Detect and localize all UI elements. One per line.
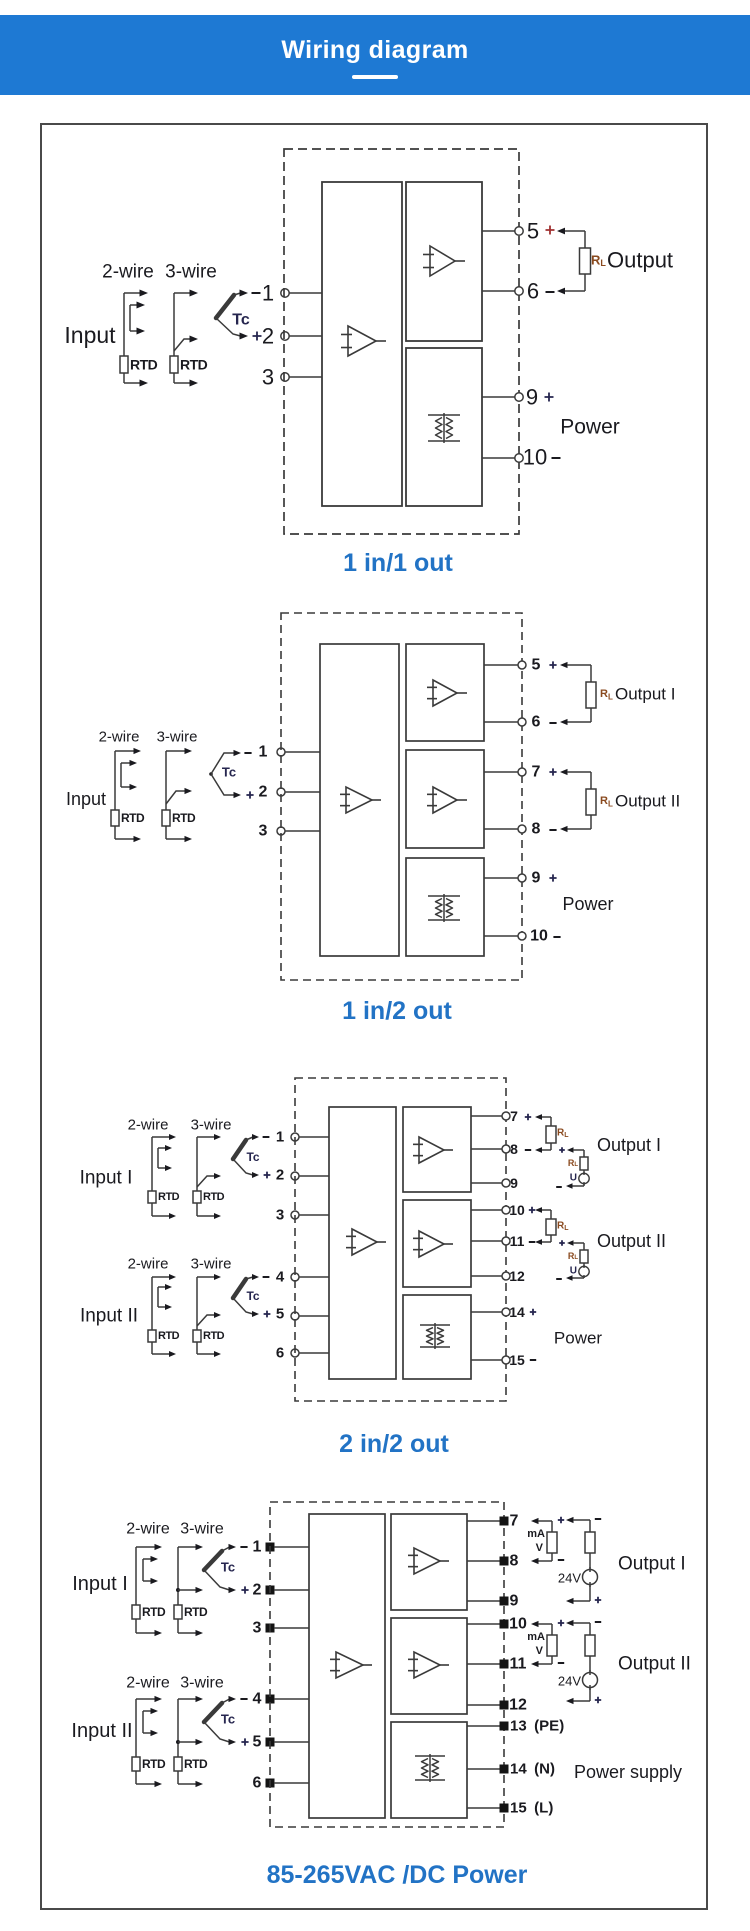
svg-text:Power: Power <box>554 1329 603 1348</box>
svg-text:3-wire: 3-wire <box>191 1117 232 1134</box>
wire terminal2-block (D3) <box>299 1175 329 1177</box>
polarity - source II (D4) <box>595 1621 601 1623</box>
svg-text:RL: RL <box>557 1221 569 1232</box>
svg-text:RL: RL <box>591 253 606 269</box>
svg-text:2: 2 <box>253 1582 262 1599</box>
terminal square 14 (D4) <box>500 1765 509 1774</box>
terminal circle 2 (D2) <box>277 788 285 796</box>
svg-text:Input I: Input I <box>72 1573 128 1595</box>
wire terminal2-block (D2) <box>285 791 320 793</box>
svg-text:Output II: Output II <box>618 1654 691 1675</box>
wire block-terminal9 (D4) <box>467 1600 500 1602</box>
svg-text:Input I: Input I <box>80 1168 133 1189</box>
RTD resistor 3-wire (D2) <box>162 810 170 826</box>
voltage load loop II (D3) <box>556 1240 589 1281</box>
polarity - meter II (D4) <box>558 1662 564 1664</box>
svg-text:9: 9 <box>510 1175 518 1191</box>
svg-text:Power supply: Power supply <box>574 1762 682 1782</box>
wire block-terminal9 (D2) <box>484 877 518 879</box>
svg-text:Tc: Tc <box>246 1289 259 1303</box>
polarity - at 8 (D2) <box>549 829 556 831</box>
svg-text:Output I: Output I <box>615 685 675 704</box>
terminal circle 5 (D3) <box>291 1312 299 1320</box>
3-wire sensor bracket (D2) <box>166 748 192 842</box>
svg-text:Output I: Output I <box>618 1554 686 1575</box>
polarity - at 15 (D3) <box>530 1359 536 1361</box>
svg-text:24V: 24V <box>558 1571 581 1586</box>
wire block-terminal15 (D4) <box>467 1807 500 1809</box>
wire terminal5-block (D3) <box>299 1315 329 1317</box>
op-amp output stage (D1) <box>423 246 465 276</box>
terminal square 1 (D4) <box>266 1543 275 1552</box>
wire block-terminal10 (D1) <box>482 457 515 459</box>
svg-text:RTD: RTD <box>172 811 196 825</box>
svg-text:2 in/2 out: 2 in/2 out <box>339 1430 449 1458</box>
wire block-terminal12 (D3) <box>471 1275 502 1277</box>
terminal circle 2 (D1) <box>281 332 289 340</box>
wire block-terminal8 (D3) <box>471 1148 502 1150</box>
wire block-terminal9 (D3) <box>471 1182 502 1184</box>
op-amp input stage (D1) <box>341 326 386 356</box>
svg-text:Input: Input <box>64 322 116 348</box>
svg-text:6: 6 <box>527 279 539 304</box>
svg-text:V: V <box>536 1542 544 1554</box>
wire terminal4-block (D3) <box>299 1276 329 1278</box>
2-wire sensor bracket (D3-II) <box>152 1274 176 1357</box>
svg-text:2: 2 <box>259 784 268 801</box>
RTD resistor 2-wire (D4-I) <box>132 1605 140 1619</box>
output amplifier I block (D4) <box>391 1514 467 1610</box>
load resistor RL loop II (D2) <box>560 769 596 832</box>
wire block-terminal9 (D1) <box>482 396 515 398</box>
mA/V meter loop II (D4) <box>531 1621 557 1667</box>
wire block-terminal8 (D2) <box>484 828 518 830</box>
load resistor RL loop I (D3) <box>535 1114 556 1153</box>
op-amp output II (D2) <box>427 787 467 813</box>
svg-text:Input: Input <box>66 789 106 809</box>
terminal circle 12 (D3) <box>502 1272 510 1280</box>
wire block-terminal7 (D4) <box>467 1520 500 1522</box>
svg-text:1: 1 <box>253 1539 262 1556</box>
terminal square 7 (D4) <box>500 1517 509 1526</box>
terminal circle 8 (D2) <box>518 825 526 833</box>
svg-text:9: 9 <box>526 385 538 410</box>
wire terminal1-block (D2) <box>285 751 320 753</box>
wire terminal4-block (D4) <box>274 1698 309 1700</box>
op-amp output I (D2) <box>427 680 467 706</box>
terminal circle 4 (D3) <box>291 1273 299 1281</box>
polarity + at terminal 5 (D4-II) <box>241 1738 248 1745</box>
load resistor RL loop I (D2) <box>560 662 596 725</box>
output amplifier I block (D3) <box>403 1107 471 1192</box>
svg-text:7: 7 <box>532 764 541 781</box>
op-amp input stage (D3) <box>346 1229 386 1255</box>
svg-text:mA: mA <box>527 1528 545 1540</box>
wire terminal3-block (D3) <box>299 1214 329 1216</box>
svg-text:5: 5 <box>527 219 539 244</box>
output amplifier II block (D2) <box>406 750 484 848</box>
RTD resistor 2-wire (D1) <box>120 356 128 373</box>
svg-text:RTD: RTD <box>158 1330 180 1342</box>
terminal circle 15 (D3) <box>502 1356 510 1364</box>
thermocouple Tc (D3-II) <box>233 1274 259 1317</box>
wire terminal1-block (D4) <box>274 1546 309 1548</box>
svg-text:3: 3 <box>262 365 274 390</box>
input amplifier block (D1) <box>322 182 402 506</box>
svg-text:Output II: Output II <box>597 1231 666 1251</box>
svg-text:Output: Output <box>607 248 673 273</box>
svg-text:4: 4 <box>276 1269 285 1286</box>
dashed module boundary (D4) <box>270 1502 504 1827</box>
thermocouple Tc (D4-II) <box>204 1696 236 1745</box>
wire block-terminal7 (D2) <box>484 771 518 773</box>
op-amp output I (D3) <box>413 1137 453 1163</box>
svg-text:1: 1 <box>262 281 274 306</box>
svg-text:Output I: Output I <box>597 1135 661 1155</box>
dashed module boundary (D3) <box>295 1078 506 1401</box>
svg-text:4: 4 <box>253 1691 262 1708</box>
svg-text:5: 5 <box>532 657 541 674</box>
input amplifier block (D4) <box>309 1514 385 1818</box>
terminal circle 1 (D1) <box>281 289 289 297</box>
polarity + at 9 (D1) <box>545 393 554 402</box>
svg-text:13 (PE): 13 (PE) <box>510 1718 564 1735</box>
wire block-terminal12 (D4) <box>467 1704 500 1706</box>
power supply block (D4) <box>391 1722 467 1818</box>
svg-text:8: 8 <box>510 1553 519 1570</box>
polarity - source I (D4) <box>595 1518 601 1520</box>
svg-text:24V: 24V <box>558 1674 581 1689</box>
polarity - at terminal 1 (D3-I) <box>263 1136 270 1138</box>
power supply block (D3) <box>403 1295 471 1379</box>
svg-text:RTD: RTD <box>158 1191 180 1203</box>
terminal square 11 (D4) <box>500 1660 509 1669</box>
terminal square 6 (D4) <box>266 1779 275 1788</box>
wire block-terminal10 (D2) <box>484 935 518 937</box>
svg-text:12: 12 <box>509 1268 525 1284</box>
svg-text:2-wire: 2-wire <box>128 1117 169 1134</box>
power supply block (D2) <box>406 858 484 956</box>
polarity + at terminal 2 (D3-I) <box>264 1172 271 1179</box>
terminal circle 5 (D2) <box>518 661 526 669</box>
polarity + at 14 (D3) <box>530 1309 536 1315</box>
terminal square 8 (D4) <box>500 1557 509 1566</box>
wire terminal3-block (D2) <box>285 830 320 832</box>
wire terminal1-block (D1) <box>289 292 322 294</box>
svg-text:5: 5 <box>253 1734 262 1751</box>
load resistor RL loop (D1) <box>557 228 591 295</box>
terminal circle 7 (D3) <box>502 1112 510 1120</box>
RTD resistor 2-wire (D3-II) <box>148 1330 156 1342</box>
svg-text:9: 9 <box>532 870 541 887</box>
svg-text:3-wire: 3-wire <box>180 1675 224 1692</box>
terminal square 3 (D4) <box>266 1624 275 1633</box>
terminal circle 14 (D3) <box>502 1308 510 1316</box>
svg-text:RTD: RTD <box>184 1757 208 1771</box>
polarity - at 6 (D2) <box>549 722 556 724</box>
svg-text:RTD: RTD <box>130 357 158 373</box>
RTD resistor 2-wire (D4-II) <box>132 1757 140 1771</box>
wire terminal6-block (D4) <box>274 1782 309 1784</box>
svg-text:2-wire: 2-wire <box>99 729 140 746</box>
transformer (D4) <box>415 1754 445 1782</box>
svg-text:RTD: RTD <box>180 357 208 373</box>
wire block-terminal6 (D2) <box>484 721 518 723</box>
polarity - at terminal 4 (D3-II) <box>263 1276 270 1278</box>
polarity + at 9 (D2) <box>549 874 556 881</box>
svg-text:3-wire: 3-wire <box>165 262 217 283</box>
wire block-terminal10 (D4) <box>467 1623 500 1625</box>
svg-text:15 (L): 15 (L) <box>510 1800 553 1817</box>
wire block-terminal8 (D4) <box>467 1560 500 1562</box>
svg-text:3: 3 <box>259 823 268 840</box>
svg-text:RL: RL <box>600 688 613 701</box>
polarity + source II (D4) <box>595 1697 601 1703</box>
terminal circle 6 (D3) <box>291 1349 299 1357</box>
svg-text:2: 2 <box>276 1167 284 1184</box>
polarity + at terminal 2 (D1) <box>253 332 262 341</box>
2-wire sensor bracket (D3-I) <box>152 1134 176 1219</box>
svg-text:14 (N): 14 (N) <box>510 1761 555 1778</box>
output amplifier I block (D2) <box>406 644 484 741</box>
wire block-terminal5 (D2) <box>484 664 518 666</box>
RTD resistor 2-wire (D3-I) <box>148 1191 156 1203</box>
polarity + at 5 (D1) <box>546 226 555 235</box>
wire block-terminal11 (D4) <box>467 1663 500 1665</box>
svg-text:1: 1 <box>276 1129 284 1146</box>
svg-text:V: V <box>536 1645 544 1657</box>
svg-text:1: 1 <box>259 744 268 761</box>
RTD resistor 3-wire (D3-II) <box>193 1330 201 1342</box>
polarity - at terminal 1 (D2) <box>244 752 251 754</box>
terminal square 5 (D4) <box>266 1738 275 1747</box>
svg-text:RL: RL <box>568 1251 579 1261</box>
wire terminal2-block (D4) <box>274 1589 309 1591</box>
terminal square 15 (D4) <box>500 1804 509 1813</box>
svg-text:RTD: RTD <box>142 1757 166 1771</box>
input amplifier block (D2) <box>320 644 399 956</box>
transformer (D3) <box>420 1323 450 1349</box>
op-amp input stage (D4) <box>330 1652 372 1678</box>
svg-text:15: 15 <box>509 1352 525 1368</box>
polarity + meter I (D4) <box>558 1517 564 1523</box>
wire block-terminal14 (D4) <box>467 1768 500 1770</box>
svg-text:3: 3 <box>253 1620 262 1637</box>
terminal circle 9 (D1) <box>515 393 523 401</box>
svg-text:11: 11 <box>510 1233 525 1249</box>
2-wire sensor bracket (D4-II) <box>136 1696 162 1787</box>
terminal circle 5 (D1) <box>515 227 523 235</box>
svg-text:6: 6 <box>532 714 541 731</box>
polarity - at 10 (D2) <box>553 936 560 938</box>
svg-text:3: 3 <box>276 1207 284 1224</box>
polarity - at 6 (D1) <box>546 291 555 293</box>
polarity - at 10 (D1) <box>552 457 561 459</box>
svg-text:Power: Power <box>560 416 620 439</box>
power supply block (D1) <box>406 348 482 506</box>
wire block-terminal14 (D3) <box>471 1311 502 1313</box>
output amplifier II block (D4) <box>391 1618 467 1714</box>
transformer (D1) <box>428 413 460 443</box>
svg-text:7: 7 <box>510 1513 519 1530</box>
wire block-terminal7 (D3) <box>471 1115 502 1117</box>
wire block-terminal11 (D3) <box>471 1240 502 1242</box>
svg-text:Tc: Tc <box>221 1712 235 1727</box>
polarity + at terminal 2 (D4-I) <box>241 1586 248 1593</box>
polarity - at 8 (D3) <box>525 1149 531 1151</box>
24V source loop II (D4) <box>566 1620 598 1704</box>
polarity + at terminal 5 (D3-II) <box>264 1311 271 1318</box>
svg-text:1 in/2 out: 1 in/2 out <box>342 997 452 1025</box>
svg-text:2-wire: 2-wire <box>126 1675 170 1692</box>
svg-text:RL: RL <box>600 795 613 808</box>
svg-text:10: 10 <box>509 1616 527 1633</box>
terminal circle 3 (D2) <box>277 827 285 835</box>
polarity + at 10 (D3) <box>529 1207 535 1213</box>
terminal circle 10 (D1) <box>515 454 523 462</box>
polarity - at terminal 1 (D1) <box>252 292 261 294</box>
wire terminal6-block (D3) <box>299 1352 329 1354</box>
RTD resistor 2-wire (D2) <box>111 810 119 826</box>
svg-text:RL: RL <box>568 1158 579 1168</box>
24V source loop I (D4) <box>566 1517 598 1604</box>
svg-text:12: 12 <box>509 1697 527 1714</box>
svg-text:Tc: Tc <box>232 312 250 329</box>
terminal square 12 (D4) <box>500 1701 509 1710</box>
RTD resistor 3-wire (D3-I) <box>193 1191 201 1203</box>
mA/V meter loop I (D4) <box>531 1518 557 1564</box>
wire terminal1-block (D3) <box>299 1136 329 1138</box>
thermocouple Tc (D1) <box>216 290 248 340</box>
voltage load loop I (D3) <box>556 1147 589 1189</box>
svg-text:2: 2 <box>262 324 274 349</box>
terminal circle 9 (D2) <box>518 874 526 882</box>
polarity + at 7 (D3) <box>525 1114 531 1120</box>
svg-text:9: 9 <box>510 1593 519 1610</box>
svg-text:3-wire: 3-wire <box>191 1256 232 1273</box>
terminal circle 1 (D2) <box>277 748 285 756</box>
wire block-terminal13 (D4) <box>467 1725 500 1727</box>
RTD resistor 3-wire (D1) <box>170 356 178 373</box>
svg-text:RTD: RTD <box>142 1605 166 1619</box>
wire terminal3-block (D4) <box>274 1627 309 1629</box>
wire terminal3-block (D1) <box>289 376 322 378</box>
terminal square 2 (D4) <box>266 1586 275 1595</box>
svg-text:Tc: Tc <box>222 765 236 780</box>
banner: Wiring diagram <box>0 15 750 95</box>
thermocouple Tc (D2) <box>209 750 241 798</box>
svg-text:Output II: Output II <box>615 792 680 811</box>
RTD resistor 3-wire (D4-I) <box>174 1605 182 1619</box>
svg-text:RTD: RTD <box>203 1330 225 1342</box>
load resistor RL loop II (D3) <box>535 1207 556 1245</box>
wire block-terminal10 (D3) <box>471 1209 502 1211</box>
wire block-terminal5 (D1) <box>482 230 515 232</box>
svg-text:Tc: Tc <box>246 1150 259 1164</box>
wire terminal2-block (D1) <box>289 335 322 337</box>
svg-text:RTD: RTD <box>121 811 145 825</box>
dashed module boundary (D1) <box>284 149 519 534</box>
svg-text:8: 8 <box>532 821 541 838</box>
svg-text:5: 5 <box>276 1306 284 1323</box>
svg-text:10: 10 <box>523 445 547 470</box>
3-wire sensor bracket (D4-I) <box>176 1544 203 1636</box>
terminal circle 10 (D2) <box>518 932 526 940</box>
svg-text:RL: RL <box>557 1128 569 1139</box>
svg-text:10: 10 <box>509 1202 525 1218</box>
3-wire sensor bracket (D4-II) <box>176 1696 203 1787</box>
input amplifier block (D3) <box>329 1107 396 1379</box>
svg-text:6: 6 <box>253 1775 262 1792</box>
svg-text:U: U <box>570 1266 577 1277</box>
terminal circle 6 (D1) <box>515 287 523 295</box>
terminal circle 11 (D3) <box>502 1237 510 1245</box>
wire terminal5-block (D4) <box>274 1741 309 1743</box>
op-amp output II (D3) <box>413 1231 453 1257</box>
polarity + meter II (D4) <box>558 1620 564 1626</box>
terminal square 13 (D4) <box>500 1722 509 1731</box>
2-wire sensor bracket (D1) <box>124 290 148 387</box>
3-wire sensor bracket (D3-I) <box>197 1134 221 1219</box>
svg-text:6: 6 <box>276 1345 284 1362</box>
svg-text:1 in/1 out: 1 in/1 out <box>343 549 453 577</box>
svg-text:14: 14 <box>509 1304 525 1320</box>
svg-text:Input II: Input II <box>80 1306 138 1327</box>
polarity + at 5 (D2) <box>549 661 556 668</box>
svg-text:3-wire: 3-wire <box>157 729 198 746</box>
svg-text:2-wire: 2-wire <box>128 1256 169 1273</box>
svg-text:85-265VAC /DC Power: 85-265VAC /DC Power <box>267 1861 528 1889</box>
op-amp output II (D4) <box>408 1652 449 1678</box>
3-wire sensor bracket (D1) <box>174 290 198 387</box>
svg-text:RTD: RTD <box>184 1605 208 1619</box>
polarity + at terminal 2 (D2) <box>246 791 253 798</box>
polarity - at 11 (D3) <box>529 1241 535 1243</box>
transformer (D2) <box>428 894 460 922</box>
terminal square 10 (D4) <box>500 1620 509 1629</box>
output amplifier block (D1) <box>406 182 482 341</box>
wire block-terminal15 (D3) <box>471 1359 502 1361</box>
polarity - at terminal 1 (D4-I) <box>240 1546 247 1548</box>
terminal circle 10 (D3) <box>502 1206 510 1214</box>
polarity + source I (D4) <box>595 1597 601 1603</box>
svg-text:7: 7 <box>510 1108 518 1124</box>
terminal circle 9 (D3) <box>502 1179 510 1187</box>
terminal circle 1 (D3) <box>291 1133 299 1141</box>
terminal square 4 (D4) <box>266 1695 275 1704</box>
2-wire sensor bracket (D4-I) <box>136 1544 162 1636</box>
dashed module boundary (D2) <box>281 613 522 980</box>
svg-text:2-wire: 2-wire <box>102 262 154 283</box>
svg-text:Input II: Input II <box>71 1720 132 1742</box>
polarity + at 7 (D2) <box>549 768 556 775</box>
svg-text:8: 8 <box>510 1141 518 1157</box>
svg-text:mA: mA <box>527 1631 545 1643</box>
terminal square 9 (D4) <box>500 1597 509 1606</box>
output amplifier II block (D3) <box>403 1200 471 1287</box>
svg-text:2-wire: 2-wire <box>126 1521 170 1538</box>
terminal circle 2 (D3) <box>291 1172 299 1180</box>
terminal circle 6 (D2) <box>518 718 526 726</box>
thermocouple Tc (D4-I) <box>204 1544 236 1593</box>
op-amp input stage (D2) <box>340 787 381 813</box>
wire block-terminal6 (D1) <box>482 290 515 292</box>
svg-text:RTD: RTD <box>203 1191 225 1203</box>
2-wire sensor bracket (D2) <box>115 748 141 842</box>
svg-text:Tc: Tc <box>221 1560 235 1575</box>
svg-text:3-wire: 3-wire <box>180 1521 224 1538</box>
op-amp output I (D4) <box>408 1548 449 1574</box>
